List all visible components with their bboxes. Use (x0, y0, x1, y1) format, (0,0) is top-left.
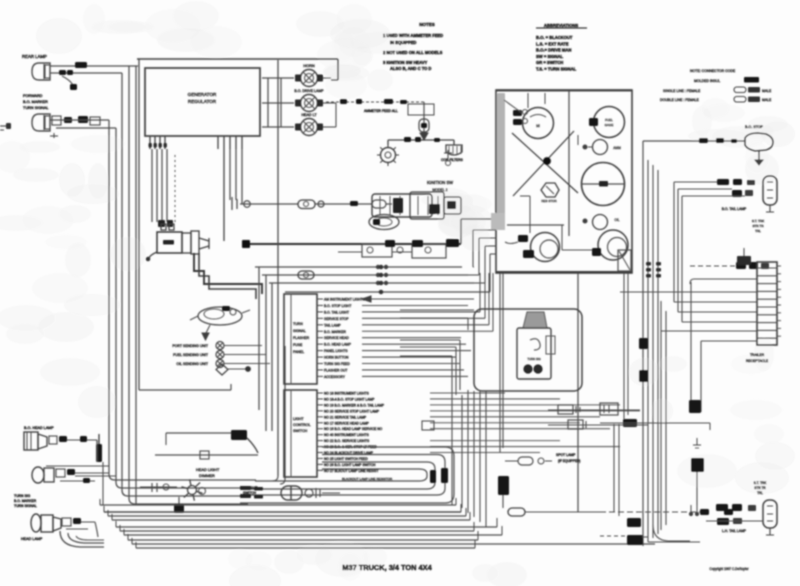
svg-text:FUEL SENDING UNIT: FUEL SENDING UNIT (173, 353, 209, 357)
svg-text:TURN SIGNAL: TURN SIGNAL (14, 504, 37, 508)
svg-text:NO 19 B.O. MARKER & B.O. TAIL: NO 19 B.O. MARKER & B.O. TAIL LAMP (324, 403, 385, 407)
svg-text:NO 40 INSTRUMENT LIGHTS: NO 40 INSTRUMENT LIGHTS (324, 433, 370, 437)
svg-text:GENERATOR: GENERATOR (188, 92, 217, 97)
svg-text:FUEL: FUEL (605, 118, 613, 122)
svg-text:ABBREVIATIONS: ABBREVIATIONS (544, 23, 579, 28)
svg-text:B.O. STOP: B.O. STOP (745, 125, 764, 129)
svg-text:B.O. TAIL LAMP: B.O. TAIL LAMP (722, 207, 747, 211)
svg-text:AM INSTRUMENT LIGHTS: AM INSTRUMENT LIGHTS (324, 298, 366, 302)
svg-text:BLACKOUT LAMP LINE RESISTOR: BLACKOUT LAMP LINE RESISTOR (342, 477, 393, 481)
svg-text:1 USED WITH AMMETER FEED: 1 USED WITH AMMETER FEED (383, 33, 443, 38)
svg-text:M37 TRUCK, 3/4 TON 4X4: M37 TRUCK, 3/4 TON 4X4 (342, 563, 432, 572)
svg-text:DIMMER: DIMMER (199, 473, 215, 478)
svg-text:GR = SWITCH: GR = SWITCH (536, 60, 563, 65)
svg-text:TURN SIG: TURN SIG (14, 494, 31, 498)
svg-text:NO 16 B.O. HEAD LAMP SERVICE N: NO 16 B.O. HEAD LAMP SERVICE NO (324, 427, 383, 431)
svg-text:NO 17 SERVICE HEAD LAMP: NO 17 SERVICE HEAD LAMP (324, 421, 370, 425)
svg-text:SW = SIGNAL: SW = SIGNAL (536, 54, 564, 59)
svg-text:2 NOT USED ON ALL MODELS: 2 NOT USED ON ALL MODELS (383, 50, 443, 55)
svg-text:TRL: TRL (757, 491, 763, 495)
svg-text:SWITCH: SWITCH (293, 429, 308, 433)
svg-text:FORWARD: FORWARD (23, 94, 43, 98)
svg-text:S.T. TRK: S.T. TRK (754, 481, 768, 485)
svg-text:HORN BUTTON: HORN BUTTON (324, 356, 349, 360)
svg-text:L.H. TAIL LAMP: L.H. TAIL LAMP (722, 529, 747, 533)
svg-text:TRAILER: TRAILER (750, 353, 765, 357)
svg-text:(IF EQUIPPED): (IF EQUIPPED) (558, 459, 580, 463)
svg-text:AMM: AMM (613, 146, 621, 150)
svg-text:T.S. = TURN SIGNAL: T.S. = TURN SIGNAL (536, 67, 577, 72)
svg-text:B.O. TAIL LIGHT: B.O. TAIL LIGHT (324, 310, 349, 314)
svg-text:FLASHER OUT: FLASHER OUT (324, 368, 347, 372)
svg-text:RECEPTACLE: RECEPTACLE (746, 359, 769, 363)
svg-text:PANEL LIGHTS: PANEL LIGHTS (324, 349, 348, 353)
svg-text:L.S. = EXT RATE: L.S. = EXT RATE (536, 41, 569, 46)
svg-text:NO 22 B.O. SERVICE LIGHTS: NO 22 B.O. SERVICE LIGHTS (324, 439, 370, 443)
svg-text:AMMETER FEED ALL: AMMETER FEED ALL (364, 109, 398, 113)
svg-text:DOUBLE LINE : FEMALE: DOUBLE LINE : FEMALE (660, 98, 700, 102)
svg-text:IGNITION SW: IGNITION SW (427, 180, 453, 185)
svg-text:SINGLE LINE : FEMALE: SINGLE LINE : FEMALE (663, 89, 701, 93)
svg-text:B.O. STOP LIGHT: B.O. STOP LIGHT (324, 304, 351, 308)
svg-text:NOTES: NOTES (419, 22, 435, 27)
svg-text:TAIL LAMP: TAIL LAMP (324, 323, 341, 327)
svg-text:NO 20 SERVICE STOP LIGHT LAMP: NO 20 SERVICE STOP LIGHT LAMP (324, 409, 380, 413)
svg-text:TURN: TURN (293, 322, 303, 326)
svg-text:S.T. TRK: S.T. TRK (752, 219, 765, 223)
svg-text:MALE: MALE (762, 98, 772, 102)
svg-text:PORT SENDING UNIT: PORT SENDING UNIT (172, 344, 209, 348)
svg-text:SERVICE STOP: SERVICE STOP (324, 317, 349, 321)
svg-text:MOLDED INSUL: MOLDED INSUL (694, 79, 720, 83)
svg-text:MI: MI (536, 124, 540, 128)
svg-text:NO 21 SERVICE TAIL LAMP: NO 21 SERVICE TAIL LAMP (324, 415, 367, 419)
svg-text:3 IGNITION SW HEAVY: 3 IGNITION SW HEAVY (383, 60, 428, 65)
svg-text:B.O. MARKER: B.O. MARKER (14, 499, 37, 503)
svg-text:STR TR: STR TR (754, 486, 766, 490)
svg-text:ALSO B, AND C TO D: ALSO B, AND C TO D (390, 66, 431, 71)
svg-text:OIL: OIL (614, 218, 619, 222)
svg-text:HEAD LT: HEAD LT (301, 113, 317, 117)
svg-text:GAGE: GAGE (605, 123, 614, 127)
svg-text:IN EQUIPPED: IN EQUIPPED (390, 40, 416, 45)
svg-text:B.O. MARKER: B.O. MARKER (23, 100, 48, 104)
svg-text:REAR LAMP: REAR LAMP (22, 54, 47, 59)
svg-text:SERVICE HEAD: SERVICE HEAD (324, 336, 349, 340)
svg-text:ACCESSORY: ACCESSORY (324, 375, 346, 379)
svg-text:HORN: HORN (303, 63, 315, 68)
svg-text:RES STOR: RES STOR (541, 199, 557, 203)
svg-text:NO 18 INSTRUMENT LIGHTS: NO 18 INSTRUMENT LIGHTS (324, 392, 370, 396)
svg-text:NOTE: CONNECTOR CODE: NOTE: CONNECTOR CODE (690, 69, 736, 73)
svg-text:REGULATOR: REGULATOR (188, 99, 217, 104)
svg-text:B.O. HEAD LAMP: B.O. HEAD LAMP (324, 343, 352, 347)
svg-text:LIGHT: LIGHT (293, 417, 304, 421)
svg-text:MALE: MALE (762, 89, 772, 93)
svg-text:NO 18-A B.O. STOP LIGHT LAMP: NO 18-A B.O. STOP LIGHT LAMP (324, 397, 375, 401)
svg-text:HEAD LAMP: HEAD LAMP (21, 537, 43, 541)
svg-text:NO 26 B.O. LIGHT LAMP SWITCH: NO 26 B.O. LIGHT LAMP SWITCH (324, 463, 376, 467)
svg-text:Copyright 1997 C.DeRuyter: Copyright 1997 C.DeRuyter (709, 567, 749, 571)
svg-text:NO 25 LIGHT SWITCH FEED: NO 25 LIGHT SWITCH FEED (324, 457, 368, 461)
svg-text:OIL SENDING UNIT: OIL SENDING UNIT (176, 362, 208, 366)
svg-text:B.O.= DRIVE MAN: B.O.= DRIVE MAN (536, 48, 571, 53)
svg-text:CONTROL: CONTROL (293, 423, 311, 427)
svg-text:FLASHER: FLASHER (293, 336, 310, 340)
svg-text:COIL FILTERS: COIL FILTERS (441, 158, 464, 162)
svg-text:HEAD LIGHT: HEAD LIGHT (196, 467, 220, 472)
svg-text:TURN SIG: TURN SIG (527, 357, 540, 361)
svg-text:B.O. = BLACKOUT: B.O. = BLACKOUT (536, 35, 573, 40)
svg-text:TURN SIG FEED: TURN SIG FEED (324, 362, 350, 366)
svg-text:FUSE: FUSE (293, 343, 303, 347)
svg-text:PANEL: PANEL (293, 350, 304, 354)
svg-text:STR TR: STR TR (752, 224, 764, 228)
svg-text:TURN SIGNAL: TURN SIGNAL (23, 106, 49, 110)
svg-text:SIGNAL: SIGNAL (293, 329, 306, 333)
svg-text:TRL: TRL (755, 229, 761, 233)
svg-text:B.O. DRIVE LAMP: B.O. DRIVE LAMP (294, 89, 324, 93)
svg-text:B.O. MARKER: B.O. MARKER (324, 330, 347, 334)
svg-text:B.O. HEAD LAMP: B.O. HEAD LAMP (24, 426, 54, 430)
svg-text:SPOT LAMP: SPOT LAMP (556, 453, 576, 457)
